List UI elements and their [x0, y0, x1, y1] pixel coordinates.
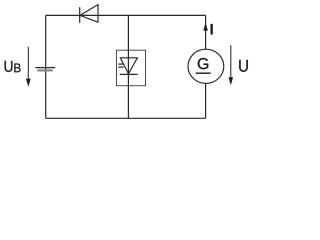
wire bottom horizontal — [46, 117, 206, 119]
current arrow I on right wire (up) — [203, 23, 208, 31]
photodiode triangle inside box — [120, 58, 137, 74]
diode D1 triangle — [80, 5, 98, 23]
generator letter G — [198, 58, 208, 69]
voltage arrow U (down) right side — [230, 45, 232, 77]
light ray dash lower — [118, 66, 123, 68]
diode D1 cathode bar — [79, 7, 81, 23]
photodiode cathode bar inside box — [120, 73, 138, 75]
wire middle vertical branch — [127, 15, 129, 118]
wire left vertical — [45, 15, 47, 118]
label I — [211, 24, 213, 34]
light ray dash upper — [118, 63, 123, 65]
DC underline in generator — [196, 72, 211, 74]
box of photodiode module — [117, 50, 146, 85]
wire right vertical — [205, 15, 207, 118]
battery cell (U_B source) long positive plate — [36, 67, 56, 69]
label B subscript of U_B — [14, 64, 20, 73]
generator G circle — [188, 49, 224, 83]
wire top horizontal — [46, 14, 206, 16]
label U of U_B — [5, 61, 13, 72]
battery cell short thick negative plate — [37, 69, 53, 71]
label U — [239, 60, 248, 72]
voltage arrow U_B (down) — [27, 47, 29, 79]
